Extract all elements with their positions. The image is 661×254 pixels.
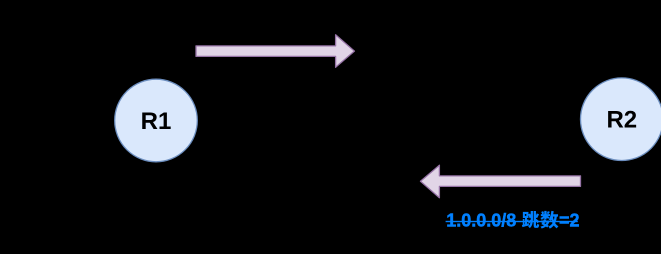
svg-text:R1: R1	[141, 108, 172, 135]
hanzi 数	[540, 211, 558, 229]
strikethrough line	[446, 221, 578, 222]
arrow left (bottom)	[421, 165, 581, 198]
svg-text:R2: R2	[606, 107, 637, 134]
svg-text:=2: =2	[559, 211, 580, 231]
svg-text:1.0.0.0/8: 1.0.0.0/8	[446, 211, 516, 231]
router node R2	[581, 78, 661, 161]
router node R1	[115, 79, 198, 162]
hanzi 跳	[522, 211, 539, 228]
arrow right (top)	[196, 35, 354, 68]
